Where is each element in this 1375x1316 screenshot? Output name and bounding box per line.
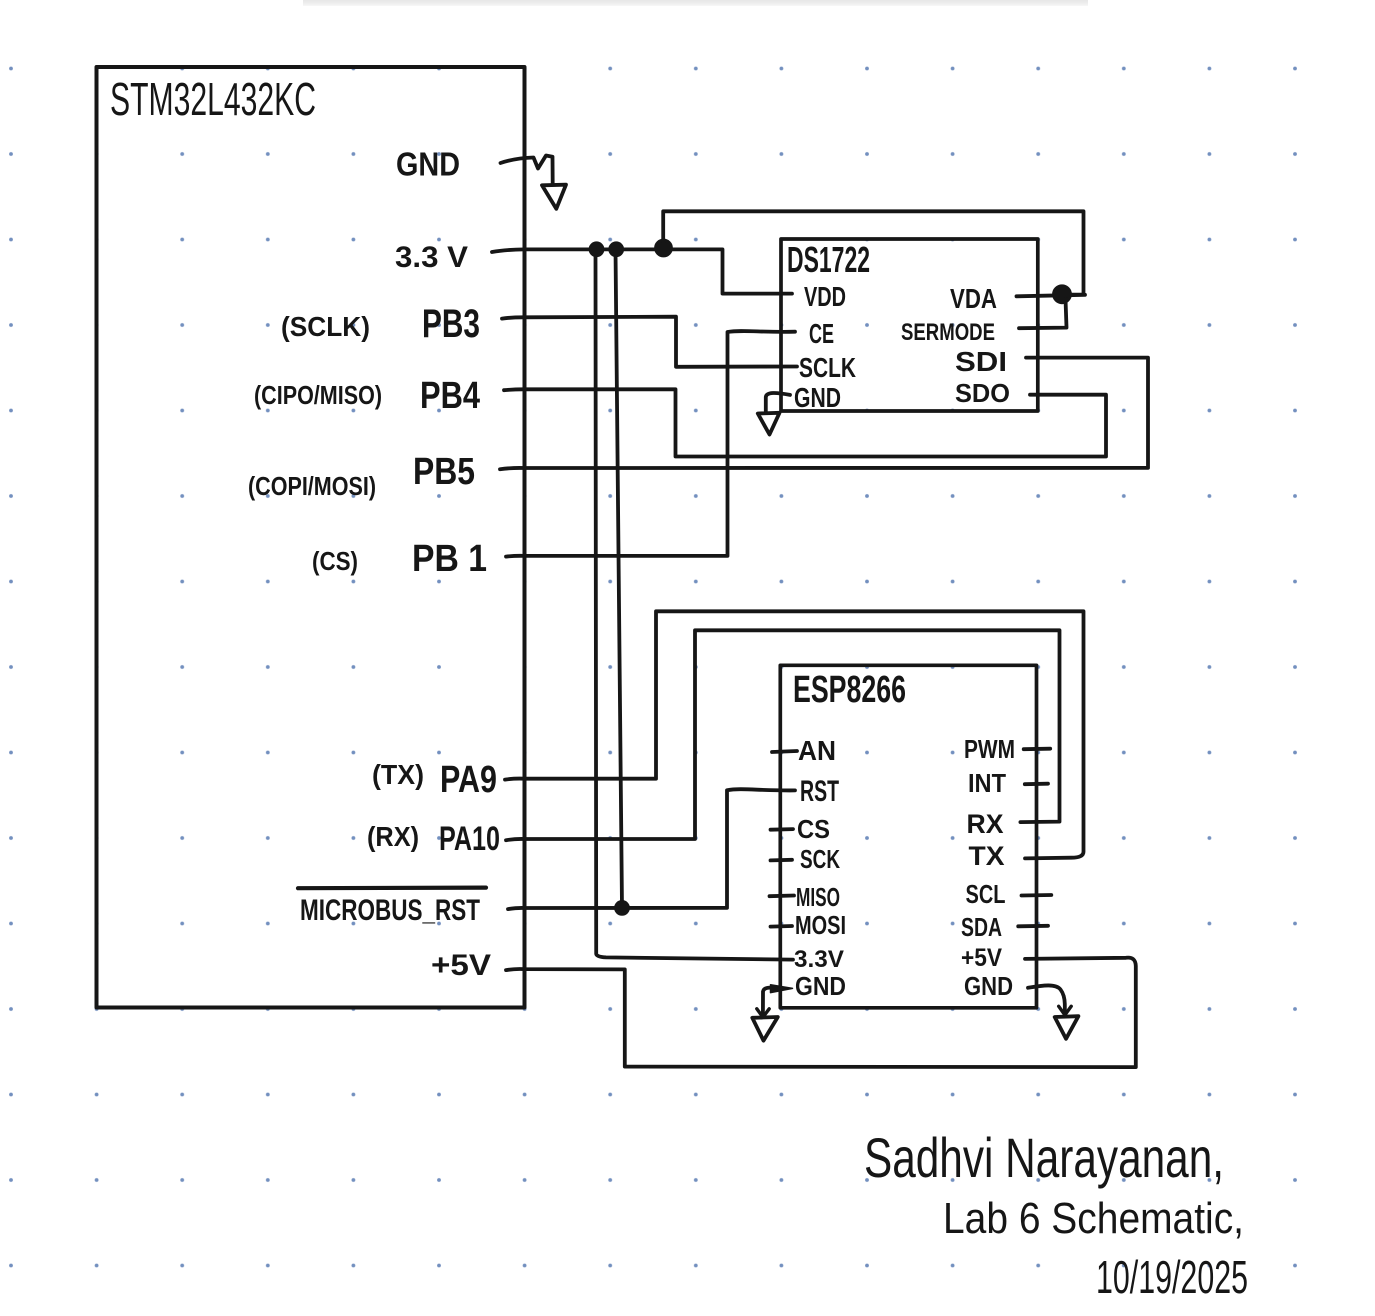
IC U2 DS1722 body	[781, 239, 1038, 411]
wire GND pin stub of U1 with squiggle	[501, 156, 553, 185]
wire U2 VDA pin stub	[1017, 295, 1086, 297]
svg-text:MOSI: MOSI	[795, 910, 846, 940]
svg-text:GND: GND	[795, 971, 846, 1001]
junction on MICROBUS_RST net	[616, 902, 628, 914]
IC U3 ESP8266 body	[780, 665, 1036, 1008]
svg-text:(SCLK): (SCLK)	[281, 311, 370, 342]
ground symbol at U3 GND right	[1055, 1016, 1079, 1039]
wire U2 VDA to SERMODE	[1019, 299, 1067, 328]
svg-text:SDA: SDA	[961, 912, 1002, 942]
svg-text:3.3 V: 3.3 V	[395, 241, 468, 274]
svg-text:SDO: SDO	[955, 378, 1010, 408]
svg-text:CE: CE	[809, 318, 834, 349]
overline for MICROBUS_RST (active low)	[298, 885, 486, 890]
pin stub U3 SCL	[1022, 893, 1052, 897]
svg-text:Sadhvi Narayanan,: Sadhvi Narayanan,	[864, 1126, 1224, 1189]
pin stub U3 PWM	[1024, 747, 1050, 751]
wire PB3 to U2 SCLK	[502, 317, 797, 367]
svg-text:10/19/2025: 10/19/2025	[1096, 1251, 1248, 1303]
svg-text:SDI: SDI	[955, 346, 1007, 377]
svg-text:3.3V: 3.3V	[794, 946, 844, 973]
wire MICROBUS_RST to U3 RST	[508, 789, 795, 909]
wire 3.3V drop to MICROBUS_RST net	[616, 250, 623, 908]
pin stub U3 MOSI	[771, 924, 793, 928]
svg-text:(RX): (RX)	[367, 821, 419, 852]
svg-text:RX: RX	[967, 809, 1004, 839]
svg-text:PB5: PB5	[413, 451, 475, 493]
svg-text:INT: INT	[968, 768, 1006, 798]
wire PB1 to U2 CE	[506, 331, 795, 557]
junction at U2 VDA pin	[1054, 286, 1070, 302]
ground symbol at U3 GND left	[752, 1017, 778, 1041]
svg-text:SCK: SCK	[800, 844, 840, 874]
svg-text:Lab 6 Schematic,: Lab 6 Schematic,	[943, 1194, 1244, 1243]
IC U1 STM32L432KC body	[97, 67, 525, 1008]
wire 3.3V drop to U3 3.3V pin	[596, 250, 794, 960]
junction on 3.3V net at riser to VDA	[656, 241, 671, 256]
svg-text:CS: CS	[797, 814, 830, 844]
svg-text:VDD: VDD	[804, 281, 846, 312]
svg-text:(TX): (TX)	[372, 759, 424, 790]
arrow barbs on U3 GND right drop	[1059, 1006, 1072, 1015]
junction on 3.3V net	[591, 243, 603, 255]
svg-text:PB 1: PB 1	[412, 538, 487, 580]
svg-text:STM32L432KC: STM32L432KC	[110, 73, 316, 125]
pin stub U3 CS	[771, 827, 794, 831]
svg-text:+5V: +5V	[431, 949, 491, 982]
wire PA10 to U3 RX	[506, 630, 1060, 840]
pin stub U3 SCK	[771, 858, 793, 862]
svg-text:PA9: PA9	[440, 759, 497, 801]
svg-text:(COPI/MOSI): (COPI/MOSI)	[248, 471, 376, 501]
svg-text:ESP8266: ESP8266	[793, 669, 906, 711]
svg-text:PWM: PWM	[964, 734, 1015, 764]
svg-text:PA10: PA10	[439, 820, 500, 858]
svg-text:PB4: PB4	[420, 375, 480, 417]
svg-text:(CIPO/MISO): (CIPO/MISO)	[254, 380, 382, 410]
svg-text:MICROBUS_RST: MICROBUS_RST	[300, 894, 480, 927]
wire PA9 to U3 TX	[505, 611, 1084, 858]
arrow barbs on U3 GND left drop	[757, 1009, 769, 1017]
svg-text:GND: GND	[964, 971, 1013, 1001]
toolbar remnant bar	[303, 0, 1088, 6]
ground symbol at U1 GND	[542, 185, 566, 209]
junction on 3.3V net	[610, 243, 622, 255]
svg-text:(CS): (CS)	[312, 546, 358, 576]
ground symbol at U2 GND	[758, 413, 780, 435]
wire U3 GND right pin hook	[1028, 985, 1065, 1014]
svg-text:VDA: VDA	[950, 283, 997, 314]
svg-text:MISO: MISO	[796, 882, 840, 912]
svg-text:TX: TX	[969, 841, 1005, 871]
wire PB4 to U2 SDO	[504, 389, 1106, 456]
wire U3 GND left pin hook	[763, 988, 780, 1017]
svg-text:+5V: +5V	[961, 944, 1002, 972]
svg-text:PB3: PB3	[422, 302, 480, 346]
svg-text:AN: AN	[798, 735, 836, 766]
wire PB5 to U2 SDI	[500, 358, 1148, 470]
wire U2 GND pin hook	[766, 393, 790, 412]
pin stub U3 SDA	[1018, 924, 1048, 928]
wire 3.3V net: U1 3.3V pin to U2 VDD	[492, 249, 792, 293]
pin stub U3 MISO	[770, 894, 795, 899]
arrowhead into U3 GND pin	[771, 985, 793, 993]
wire 3.3V net riser over U2 to VDA	[663, 211, 1083, 294]
svg-text:RST: RST	[800, 775, 839, 808]
svg-text:GND: GND	[396, 146, 460, 183]
svg-text:SCL: SCL	[966, 879, 1006, 909]
pin stub U3 INT	[1025, 782, 1048, 786]
svg-text:GND: GND	[794, 382, 841, 413]
svg-text:SCLK: SCLK	[799, 352, 856, 383]
pin stub U3 AN	[772, 751, 797, 752]
svg-text:SERMODE: SERMODE	[901, 319, 995, 346]
wire +5V net: U1 +5V to U3 +5V	[506, 958, 1136, 1067]
svg-text:DS1722: DS1722	[787, 239, 870, 280]
